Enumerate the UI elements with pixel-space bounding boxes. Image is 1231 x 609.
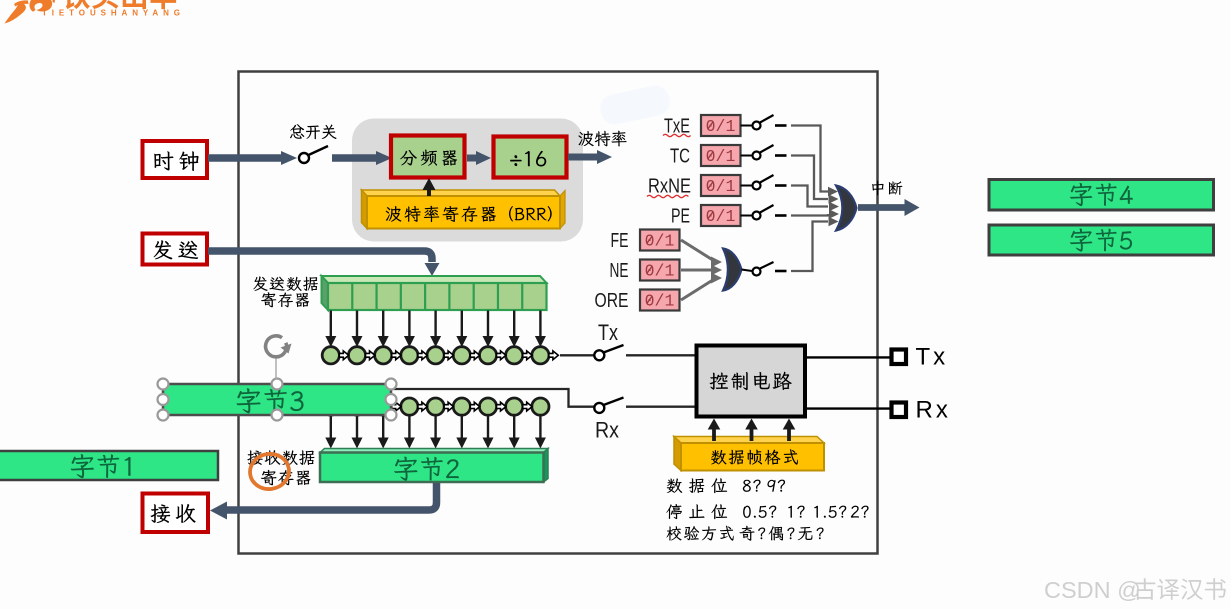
flag RxNE bbox=[648, 175, 787, 198]
flag NE bbox=[610, 260, 680, 283]
wire BRR up arrow bbox=[423, 178, 436, 196]
wire PE bbox=[791, 209, 839, 219]
svg-text:CSDN @: CSDN @ bbox=[1044, 577, 1141, 603]
label 发送数据寄存器 bbox=[253, 276, 318, 307]
watermark CSDN bbox=[1044, 577, 1226, 603]
label 波特率 bbox=[578, 131, 626, 147]
svg-text:Tx: Tx bbox=[916, 344, 949, 371]
box clock 时钟 bbox=[143, 141, 208, 178]
wire baud out arrow bbox=[568, 150, 612, 164]
flag TC bbox=[670, 145, 787, 168]
label Tx outer bbox=[916, 344, 949, 371]
wire send thick bbox=[208, 251, 440, 276]
switch tx bbox=[594, 345, 623, 360]
box divider 分频器 bbox=[391, 136, 465, 178]
squiggle TxE bbox=[663, 134, 691, 136]
arrow FE to or2 bbox=[681, 240, 722, 268]
gate OR1 interrupt bbox=[836, 186, 857, 231]
svg-text:FE: FE bbox=[611, 230, 629, 252]
flag FE bbox=[611, 230, 680, 253]
wire divider to div16 bbox=[467, 151, 491, 165]
label Rx inner bbox=[595, 418, 619, 443]
wire or2 to or1 bbox=[791, 217, 839, 271]
switch master SW1 bbox=[299, 146, 328, 163]
flag ORE bbox=[595, 290, 680, 313]
svg-text:Rx: Rx bbox=[595, 418, 619, 443]
wire or2 to switch bbox=[742, 270, 753, 272]
arrows rx shifter to RDR bbox=[325, 416, 546, 448]
squiggle RxNE bbox=[647, 195, 688, 197]
label 接收数据寄存器 bbox=[247, 450, 314, 485]
box control 控制电路 bbox=[697, 346, 806, 417]
arrows TDR to tx shifter bbox=[325, 311, 546, 348]
box byte2 字节2 3D bbox=[320, 449, 548, 483]
wire switch to divider bbox=[332, 151, 392, 165]
svg-text:ORE: ORE bbox=[595, 290, 629, 312]
logo chinese 铁头山羊 bbox=[63, 0, 177, 9]
terminal Rx square bbox=[892, 403, 907, 418]
arrow ORE to or2 bbox=[681, 273, 722, 301]
svg-text:Rx: Rx bbox=[916, 397, 951, 424]
flag PE bbox=[671, 205, 787, 228]
wire TC bbox=[791, 156, 839, 204]
selection handles byte3 bbox=[158, 379, 397, 421]
box receive 接收 bbox=[143, 494, 209, 533]
wire rx out bbox=[805, 407, 890, 409]
label 数据位 bbox=[667, 478, 785, 493]
box byte4 字节4 bbox=[989, 180, 1214, 211]
box div16 ÷16 bbox=[494, 137, 567, 178]
logo latin TIETOUSHANYANG bbox=[42, 8, 180, 17]
arrows format to control bbox=[708, 419, 796, 442]
svg-text:PE: PE bbox=[671, 206, 690, 228]
svg-text:TC: TC bbox=[670, 146, 690, 168]
wire receive thick bbox=[210, 483, 437, 520]
switch rx bbox=[594, 398, 623, 413]
wire rx to control bbox=[626, 406, 696, 408]
box send 发送 bbox=[143, 234, 208, 265]
wire rx from byte3 bbox=[391, 389, 594, 407]
box byte1 字节1 bbox=[0, 451, 218, 480]
label Rx outer bbox=[916, 397, 951, 424]
box BRR 3D bevel bbox=[362, 190, 566, 229]
box BRR 波特率寄存器 bbox=[367, 196, 560, 229]
box byte5 字节5 bbox=[989, 225, 1214, 255]
wire clock thick arrow bbox=[208, 151, 297, 165]
svg-text:NE: NE bbox=[610, 260, 629, 282]
panel baud gray bbox=[352, 119, 583, 242]
rotate handle byte3 bbox=[266, 336, 292, 379]
box byte3 字节3 bbox=[163, 384, 391, 415]
label 停止位 bbox=[666, 504, 868, 519]
annotation orange circle bbox=[248, 451, 291, 491]
wire tx out bbox=[805, 356, 890, 358]
box frame format 3D bbox=[674, 437, 824, 471]
logo ram graphic bbox=[5, 0, 56, 24]
terminal Tx square bbox=[892, 350, 907, 365]
wire tx to control bbox=[626, 354, 696, 356]
shift register tx circles bbox=[322, 347, 595, 364]
wire interrupt arrow bbox=[858, 199, 920, 216]
wire TxE bbox=[791, 126, 838, 197]
switch or2 bbox=[753, 262, 787, 276]
arrow NE to or2 bbox=[681, 265, 722, 276]
label 中断 bbox=[872, 181, 902, 196]
frame border bbox=[239, 72, 878, 554]
svg-text:RxNE: RxNE bbox=[648, 176, 691, 198]
gate OR2 error flags bbox=[723, 249, 742, 291]
label Tx inner bbox=[598, 320, 618, 345]
svg-text:Tx: Tx bbox=[598, 320, 618, 345]
label 总开关 bbox=[290, 124, 337, 139]
label 校验方式 bbox=[667, 526, 824, 541]
smudge bbox=[598, 83, 673, 127]
shift register rx circles bbox=[322, 398, 549, 415]
flag TxE bbox=[664, 115, 787, 138]
svg-text:TxE: TxE bbox=[664, 116, 690, 138]
register TDR 3D bar bbox=[322, 276, 547, 310]
wire RxNE bbox=[791, 186, 839, 212]
